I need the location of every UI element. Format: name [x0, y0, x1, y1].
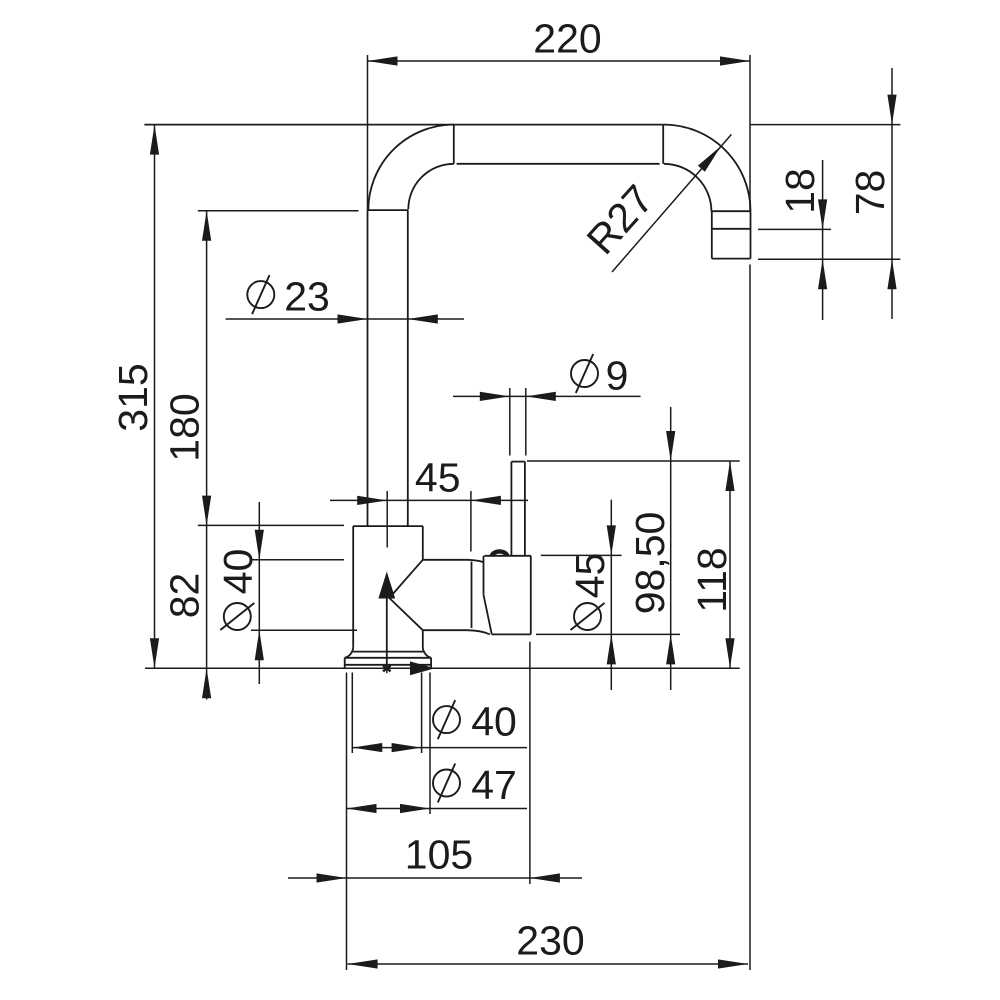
- svg-text:98,50: 98,50: [627, 512, 673, 615]
- svg-text:40: 40: [215, 549, 261, 595]
- svg-text:82: 82: [162, 573, 208, 619]
- svg-text:180: 180: [162, 393, 208, 461]
- svg-text:23: 23: [284, 274, 330, 320]
- svg-text:230: 230: [516, 918, 584, 964]
- svg-text:18: 18: [777, 168, 823, 214]
- svg-text:45: 45: [567, 553, 613, 599]
- svg-text:78: 78: [847, 170, 893, 216]
- svg-text:315: 315: [110, 363, 156, 431]
- svg-text:9: 9: [606, 353, 629, 399]
- svg-text:118: 118: [689, 547, 735, 612]
- svg-text:40: 40: [471, 699, 517, 745]
- svg-text:220: 220: [533, 16, 601, 62]
- svg-text:47: 47: [471, 762, 517, 808]
- svg-text:105: 105: [405, 832, 473, 878]
- svg-text:45: 45: [415, 455, 461, 501]
